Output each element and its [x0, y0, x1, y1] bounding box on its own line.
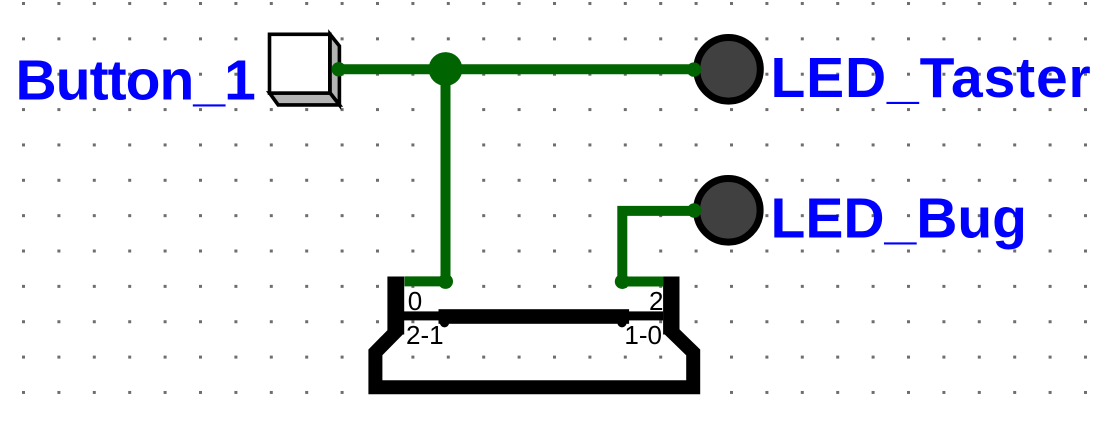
module U1 crossbar thin — [404, 311, 663, 320]
lamp LED_Bug — [697, 179, 761, 243]
lamp LED_Taster — [697, 38, 761, 102]
module U1 pivot left — [440, 318, 449, 327]
svg-text:Button_1: Button_1 — [16, 49, 256, 113]
wire W2: junction down to module pin 0 — [405, 64, 454, 289]
svg-text:1-0: 1-0 — [624, 320, 662, 350]
wire W3: LED_Bug to module pin 2 — [615, 203, 702, 289]
module U1 beam thick — [439, 309, 630, 324]
pushbutton Button_1 (3D button icon) — [270, 34, 340, 105]
svg-text:0: 0 — [408, 286, 422, 316]
svg-text:LED_Bug: LED_Bug — [771, 187, 1028, 251]
module U1: seesaw body outline — [375, 318, 693, 387]
junction node J1 — [429, 52, 463, 86]
module U1 pin 0 (left post) — [387, 277, 404, 335]
module U1 pin 2 (right post) — [663, 277, 679, 335]
svg-text:LED_Taster: LED_Taster — [771, 46, 1092, 110]
svg-text:2-1: 2-1 — [406, 320, 444, 350]
svg-text:2: 2 — [649, 286, 663, 316]
wire W1: button output to LED_Taster — [332, 62, 702, 77]
module U1 pivot right — [617, 318, 626, 327]
